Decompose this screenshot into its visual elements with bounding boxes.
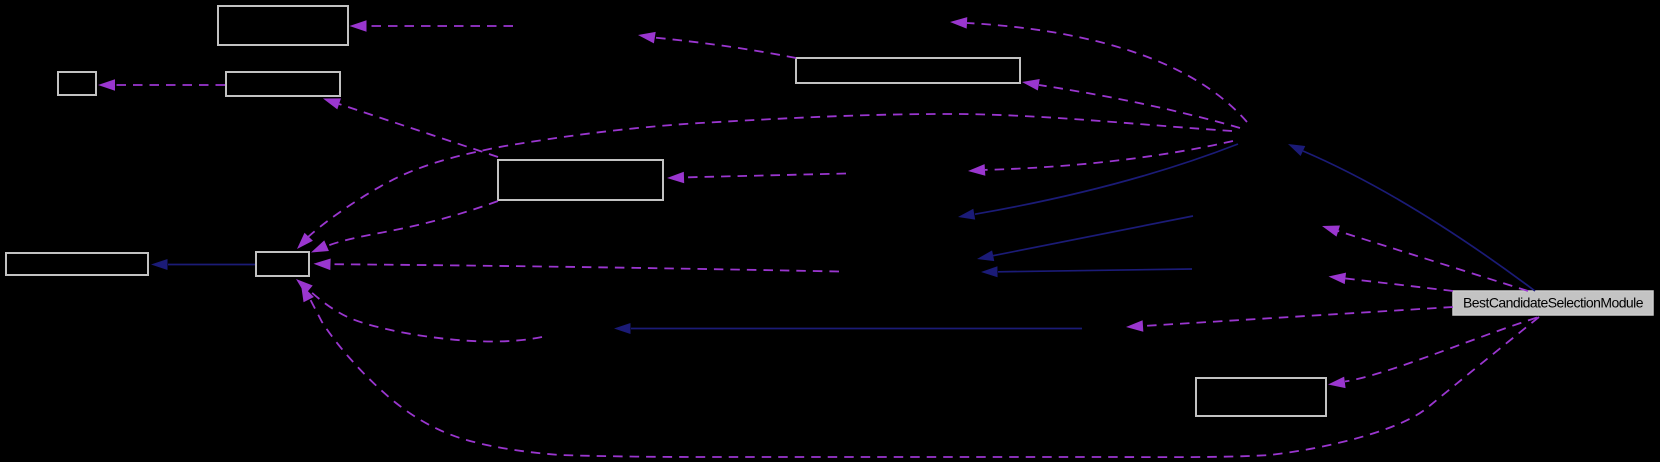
edge d2 (N3 to N2 dashed) [98,79,225,91]
edge s5 (blue horizontal short) [981,266,1192,277]
edge d16 (horizontal into N7 dashed) [313,258,839,271]
node N2 (small left class box) [58,72,96,95]
node BestCandidateSelectionModule [1453,291,1653,315]
edge s6 (blue N7 to N6) [151,259,255,270]
svg-text:BestCandidateSelectionModule: BestCandidateSelectionModule [1463,295,1644,311]
edge s2 (blue from fan point to left) [957,144,1238,222]
edge d3 (N5 to N3 dashed) [321,93,498,157]
edge d9 (N4 corner to left arrow dashed) [637,29,796,58]
edge d8 (fan to middle arrow dashed) [968,141,1233,177]
edge s4 (blue diagonal) [976,216,1193,264]
node N9 (bottom right class box) [1196,378,1326,416]
edge s7 (blue long horizontal) [614,323,1082,334]
edge d17 (N5 to N7 dashed) [309,201,498,258]
node N5 (middle class box) [498,160,663,200]
edge d5 (fan to top arrow dashed) [950,16,1247,122]
node N7 (hub class box) [256,252,309,276]
edge d7 (into N5 dashed) [667,172,846,184]
edge d15 (curve from invisible node to N7 dashed) [292,275,542,342]
node N6 (left class box) [6,253,148,275]
edge d14 (N8 bottom sweep to N7 dashed) [296,282,1539,457]
edge d12 (N8 to far-left arrow dashed) [1126,307,1453,333]
node N1 (top class box) [218,6,348,45]
node N3 (class box) [226,72,340,96]
edge d4 (fan to N4 dashed) [1021,76,1240,128]
node N4 (wide top class box) [796,58,1020,83]
edge d13 (N8 to N9 dashed) [1327,318,1537,391]
edge d6 (long fan curve to N7 top dashed) [293,114,1232,253]
edge d10 (N8 to upper-left arrow dashed) [1320,220,1528,291]
edge d11 (N8 to left arrow dashed) [1328,271,1453,291]
edge d1 (dashed into N1) [350,20,514,32]
edge s1 (blue inheritance from N8 top) [1286,139,1535,291]
